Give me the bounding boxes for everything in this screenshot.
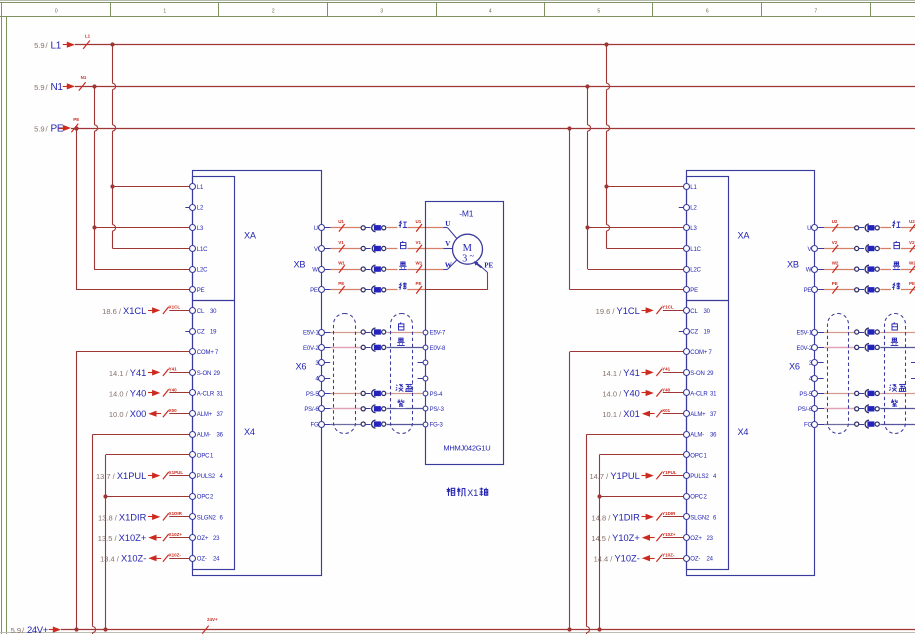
svg-text:L2C: L2C — [197, 268, 208, 274]
svg-text:19.6 / Y1CL: 19.6 / Y1CL — [596, 306, 640, 316]
svg-text:PS/-6: PS/-6 — [304, 407, 319, 413]
svg-text:14.0 / Y40: 14.0 / Y40 — [109, 388, 146, 398]
svg-text:U: U — [314, 226, 318, 232]
svg-text:OZ+: OZ+ — [690, 536, 702, 542]
svg-text:6: 6 — [706, 9, 709, 15]
svg-text:PE: PE — [804, 288, 812, 294]
svg-text:E5V-1: E5V-1 — [796, 330, 812, 336]
svg-text:OPC: OPC — [690, 453, 703, 459]
svg-text:Y1CL: Y1CL — [662, 305, 674, 310]
svg-text:PE: PE — [338, 281, 344, 286]
svg-text:36: 36 — [217, 433, 224, 439]
svg-text:18.6 / X1CL: 18.6 / X1CL — [102, 306, 146, 316]
svg-text:10.0 / X00: 10.0 / X00 — [109, 409, 146, 419]
svg-text:X4: X4 — [738, 427, 749, 437]
svg-text:X00: X00 — [169, 408, 178, 413]
svg-text:36: 36 — [710, 433, 717, 439]
svg-text:2: 2 — [272, 9, 275, 15]
svg-text:CZ: CZ — [690, 330, 698, 336]
svg-text:14.1 / Y41: 14.1 / Y41 — [602, 368, 639, 378]
svg-text:4: 4 — [489, 9, 492, 15]
svg-text:5: 5 — [597, 9, 600, 15]
svg-text:X01: X01 — [662, 408, 671, 413]
svg-text:A-CLR: A-CLR — [690, 391, 708, 397]
svg-text:COM+: COM+ — [197, 350, 215, 356]
svg-text:ALM+: ALM+ — [197, 412, 213, 418]
svg-text:PE: PE — [909, 281, 915, 286]
svg-text:U2: U2 — [909, 219, 915, 224]
svg-text:V2: V2 — [832, 240, 838, 245]
svg-text:-M1: -M1 — [459, 208, 474, 218]
svg-text:X1: X1 — [467, 488, 478, 498]
svg-text:V: V — [445, 240, 450, 248]
svg-text:14.0 / Y40: 14.0 / Y40 — [602, 388, 639, 398]
svg-text:23: 23 — [213, 536, 220, 542]
svg-text:XA: XA — [738, 231, 751, 241]
svg-text:PULS2: PULS2 — [197, 474, 216, 480]
svg-text:X6: X6 — [296, 362, 307, 372]
svg-text:OPC: OPC — [690, 495, 703, 501]
svg-text:V1: V1 — [338, 240, 344, 245]
svg-text:PE: PE — [484, 262, 493, 270]
svg-text:ALM+: ALM+ — [690, 412, 706, 418]
svg-text:E0V-2: E0V-2 — [303, 346, 319, 352]
svg-text:L1: L1 — [51, 40, 62, 51]
svg-text:N1: N1 — [51, 82, 64, 93]
svg-text:L2C: L2C — [690, 268, 701, 274]
svg-text:5.9: 5.9 — [34, 83, 44, 92]
svg-text:L1: L1 — [690, 185, 697, 191]
svg-text:PE: PE — [832, 281, 838, 286]
svg-text:Y41: Y41 — [662, 367, 671, 372]
svg-text:W2: W2 — [832, 261, 839, 266]
svg-text:OPC: OPC — [197, 453, 210, 459]
svg-text:~: ~ — [469, 251, 474, 261]
svg-text:3: 3 — [462, 254, 467, 265]
svg-text:PS-4: PS-4 — [430, 392, 444, 398]
svg-text:30: 30 — [210, 309, 217, 315]
svg-text:E5V-7: E5V-7 — [430, 330, 446, 336]
svg-text:W2: W2 — [909, 261, 915, 266]
svg-text:L1: L1 — [197, 185, 204, 191]
svg-text:31: 31 — [217, 391, 224, 397]
svg-text:5.9: 5.9 — [34, 41, 44, 50]
svg-text:X1PUL: X1PUL — [169, 470, 184, 475]
svg-text:FG-3: FG-3 — [430, 423, 444, 429]
svg-text:V: V — [807, 247, 811, 253]
svg-text:U1: U1 — [416, 219, 422, 224]
svg-text:W: W — [312, 268, 318, 274]
svg-text:37: 37 — [217, 412, 224, 418]
svg-text:A-CLR: A-CLR — [197, 391, 215, 397]
svg-text:SLGN2: SLGN2 — [690, 515, 710, 521]
svg-text:W: W — [806, 268, 812, 274]
svg-text:W1: W1 — [416, 261, 423, 266]
svg-text:13.4 / X10Z-: 13.4 / X10Z- — [100, 554, 146, 564]
svg-text:13.7 / X1PUL: 13.7 / X1PUL — [96, 471, 146, 481]
svg-text:V2: V2 — [909, 240, 915, 245]
svg-text:L1: L1 — [85, 34, 91, 39]
svg-text:7: 7 — [814, 9, 817, 15]
svg-text:Y40: Y40 — [169, 387, 178, 392]
svg-text:XB: XB — [787, 260, 799, 270]
svg-text:X10Z-: X10Z- — [169, 553, 182, 558]
svg-text:14.4 / Y10Z-: 14.4 / Y10Z- — [594, 554, 640, 564]
svg-text:X6: X6 — [789, 362, 800, 372]
svg-text:14.1 / Y41: 14.1 / Y41 — [109, 368, 146, 378]
svg-text:L3: L3 — [690, 226, 697, 232]
svg-text:Y10Z+: Y10Z+ — [662, 532, 676, 537]
svg-text:MHMJ042G1U: MHMJ042G1U — [443, 443, 490, 452]
svg-text:PE: PE — [197, 288, 205, 294]
svg-text:30: 30 — [704, 309, 711, 315]
svg-text:X1CL: X1CL — [169, 305, 181, 310]
svg-text:19: 19 — [704, 330, 711, 336]
svg-text:FG: FG — [311, 423, 320, 429]
svg-text:PS/-3: PS/-3 — [430, 407, 445, 413]
svg-text:U: U — [445, 220, 450, 228]
svg-text:PS/-6: PS/-6 — [798, 407, 813, 413]
svg-text:29: 29 — [214, 371, 221, 377]
svg-text:PULS2: PULS2 — [690, 474, 709, 480]
svg-text:U: U — [807, 226, 811, 232]
svg-text:CZ: CZ — [197, 330, 205, 336]
svg-text:CL: CL — [690, 309, 698, 315]
svg-text:OZ+: OZ+ — [197, 536, 209, 542]
svg-text:31: 31 — [710, 391, 717, 397]
svg-text:L2: L2 — [197, 206, 204, 212]
svg-text:29: 29 — [707, 371, 714, 377]
svg-text:V1: V1 — [416, 240, 422, 245]
svg-text:PS-5: PS-5 — [799, 392, 813, 398]
svg-text:3: 3 — [380, 9, 383, 15]
svg-text:L2: L2 — [690, 206, 697, 212]
svg-text:XA: XA — [244, 231, 257, 241]
svg-text:PS-5: PS-5 — [306, 392, 320, 398]
svg-text:5.9: 5.9 — [34, 124, 44, 133]
svg-text:W1: W1 — [338, 261, 345, 266]
svg-text:PE: PE — [690, 288, 698, 294]
svg-text:1: 1 — [163, 9, 166, 15]
svg-text:PE: PE — [51, 124, 64, 135]
svg-text:5.9: 5.9 — [11, 626, 21, 634]
svg-text:E5V-1: E5V-1 — [303, 330, 319, 336]
svg-text:V: V — [314, 247, 318, 253]
svg-text:L1C: L1C — [690, 247, 701, 253]
svg-text:COM+: COM+ — [690, 350, 708, 356]
svg-text:23: 23 — [707, 536, 714, 542]
svg-text:Y1PUL: Y1PUL — [662, 470, 677, 475]
svg-text:Y41: Y41 — [169, 367, 178, 372]
svg-text:0: 0 — [55, 9, 58, 15]
svg-text:24V+: 24V+ — [207, 617, 218, 622]
svg-text:14.5 / Y10Z+: 14.5 / Y10Z+ — [591, 533, 640, 543]
svg-text:14.7 / Y1PUL: 14.7 / Y1PUL — [589, 471, 639, 481]
svg-text:L3: L3 — [197, 226, 204, 232]
svg-text:ALM-: ALM- — [197, 433, 211, 439]
svg-text:10.1 / X01: 10.1 / X01 — [602, 409, 639, 419]
svg-text:OPC: OPC — [197, 495, 210, 501]
svg-text:Y10Z-: Y10Z- — [662, 553, 675, 558]
svg-text:U1: U1 — [338, 219, 344, 224]
svg-text:E0V-8: E0V-8 — [430, 346, 446, 352]
svg-text:XB: XB — [294, 260, 306, 270]
svg-text:14.8 / Y1DIR: 14.8 / Y1DIR — [592, 512, 641, 522]
svg-text:24: 24 — [707, 557, 714, 563]
svg-text:OZ-: OZ- — [197, 557, 207, 563]
svg-text:W: W — [445, 262, 452, 270]
svg-text:S-ON: S-ON — [197, 371, 211, 377]
svg-text:24V+: 24V+ — [27, 625, 49, 634]
svg-text:S-ON: S-ON — [690, 371, 704, 377]
svg-text:37: 37 — [710, 412, 717, 418]
svg-text:X4: X4 — [244, 427, 255, 437]
svg-text:Y1DIR: Y1DIR — [662, 511, 676, 516]
svg-text:Y40: Y40 — [662, 387, 671, 392]
svg-text:24: 24 — [213, 557, 220, 563]
svg-text:U2: U2 — [832, 219, 838, 224]
svg-text:PE: PE — [310, 288, 318, 294]
svg-text:E0V-2: E0V-2 — [796, 346, 812, 352]
svg-text:L1C: L1C — [197, 247, 208, 253]
svg-text:ALM-: ALM- — [690, 433, 704, 439]
svg-text:PE: PE — [416, 281, 422, 286]
svg-text:X1DIR: X1DIR — [169, 511, 183, 516]
svg-text:X10Z+: X10Z+ — [169, 532, 183, 537]
svg-text:CL: CL — [197, 309, 205, 315]
svg-text:19: 19 — [210, 330, 217, 336]
svg-text:PE: PE — [73, 117, 79, 122]
svg-text:SLGN2: SLGN2 — [197, 515, 217, 521]
svg-text:OZ-: OZ- — [690, 557, 700, 563]
svg-text:N1: N1 — [81, 75, 87, 80]
